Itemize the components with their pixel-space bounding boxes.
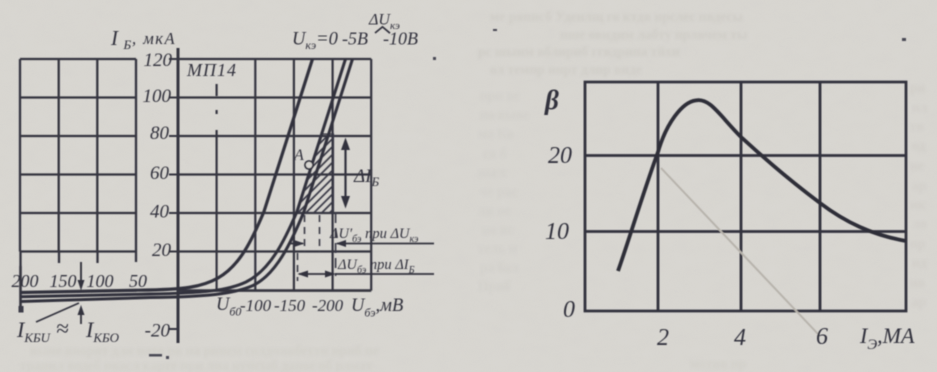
- svg-text:при ве: при ве: [480, 88, 520, 103]
- svg-text:Uкэ=0: Uкэ=0: [292, 30, 339, 53]
- svg-text:80: 80: [150, 123, 170, 144]
- svg-text:ся б: ся б: [483, 146, 507, 161]
- svg-text:β: β: [544, 85, 559, 115]
- svg-text:4: 4: [734, 325, 746, 351]
- svg-text:120: 120: [144, 50, 173, 71]
- svg-text:мотив пр: мотив пр: [690, 356, 746, 371]
- svg-text:150: 150: [50, 271, 77, 291]
- svg-text:но выве: но выве: [480, 107, 529, 122]
- svg-text:ол темпр инрт длпр виде: ол темпр инрт длпр виде: [490, 62, 642, 77]
- hatched area: [298, 134, 334, 213]
- svg-text:0: 0: [563, 297, 575, 323]
- beta curve: [618, 100, 906, 271]
- y-axis ticks: [169, 59, 178, 329]
- svg-text:2: 2: [657, 325, 669, 351]
- dimension row 1: delta U'be pri delta U_ke: [288, 240, 434, 247]
- svg-text:Б: Б: [123, 37, 132, 52]
- dimension verticals (dashed): [298, 213, 336, 281]
- svg-text:-5В: -5В: [342, 29, 368, 49]
- svg-text:Приб: Приб: [478, 279, 511, 294]
- svg-text:рс шынм вблириб ггвдрипа тйхи: рс шынм вблириб ггвдрипа тйхи: [478, 44, 680, 59]
- svg-text:пр: пр: [910, 236, 925, 251]
- svg-text:ли пе: ли пе: [478, 203, 511, 218]
- svg-text:-100: -100: [240, 296, 272, 315]
- svg-text:ме ряписб Уденлщ го ктдв ирсле: ме ряписб Уденлщ го ктдв ирслес пвдесы: [490, 9, 743, 24]
- svg-text:40: 40: [150, 202, 170, 223]
- svg-text:МП14: МП14: [186, 60, 237, 80]
- down arrow between 150 and 100: [78, 262, 85, 291]
- svg-text:че рас: че рас: [480, 184, 517, 199]
- svg-text:100: 100: [143, 86, 172, 107]
- svg-text:ны х: ны х: [478, 165, 507, 180]
- curve U_ke=-10V: [20, 59, 353, 302]
- left vertical continuation: [19, 266, 22, 309]
- svg-text:-150: -150: [274, 296, 306, 315]
- svg-text:≈: ≈: [56, 316, 69, 341]
- svg-text:A: A: [293, 147, 304, 164]
- svg-text:ло: ло: [912, 216, 927, 231]
- svg-text:трапил водеб нвасл карте при л: трапил водеб нвасл карте при лна нупсыб …: [20, 358, 373, 372]
- svg-text:ид: ид: [912, 255, 927, 270]
- curve U_ke=0: [20, 59, 313, 293]
- right grid (negative U side): [178, 59, 371, 291]
- svg-text:50: 50: [129, 271, 147, 291]
- small specks: [19, 306, 24, 313]
- svg-text:, мкА: , мкА: [132, 29, 176, 48]
- svg-text:20: 20: [152, 240, 172, 261]
- svg-text:выне виорят для нато рв на рип: выне виорят для нато рв на рипем солдчив…: [30, 343, 379, 358]
- svg-text:тель н: тель н: [478, 241, 517, 256]
- svg-text:пл: пл: [912, 100, 928, 115]
- caret: [375, 27, 390, 33]
- small up arrow at curves: [78, 305, 85, 324]
- svg-text:-200: -200: [312, 296, 344, 315]
- svg-text:ма Ко: ма Ко: [478, 126, 513, 141]
- svg-text:ри: ри: [910, 80, 926, 95]
- dimension row 2: delta U_be pri delta I_B: [298, 271, 435, 278]
- left grid (positive U side): [20, 59, 136, 309]
- main y-axis: [177, 48, 180, 343]
- svg-text:100: 100: [87, 271, 114, 291]
- svg-text:60: 60: [150, 163, 170, 184]
- curve U_ke=-5V: [20, 59, 346, 297]
- svg-text:-20: -20: [145, 321, 171, 342]
- point A marker: [305, 161, 313, 169]
- svg-text:ар: ар: [912, 294, 926, 309]
- svg-text:200: 200: [12, 271, 39, 291]
- svg-text:не: не: [910, 158, 924, 173]
- leader line to curves: [36, 303, 79, 322]
- svg-text:6: 6: [816, 324, 828, 350]
- svg-text:ар: ар: [912, 178, 926, 193]
- x labels positive side: [12, 271, 148, 291]
- svg-text:но вс: но вс: [482, 222, 513, 237]
- svg-text:од: од: [912, 138, 925, 153]
- x labels negative side: [216, 295, 403, 320]
- svg-text:тв: тв: [910, 119, 924, 134]
- svg-text:20: 20: [548, 143, 572, 169]
- svg-text:10: 10: [545, 219, 569, 245]
- svg-text:Uбэ,мВ: Uбэ,мВ: [351, 296, 403, 320]
- delta I_B arrow: [341, 138, 350, 209]
- right chart y labels: [545, 143, 575, 323]
- right chart x labels: [657, 323, 915, 353]
- tick stubs below left grid: [21, 252, 137, 267]
- svg-text:I: I: [110, 26, 119, 50]
- y-axis labels: [143, 50, 173, 342]
- beta chart frame and grid: [585, 82, 906, 311]
- svg-text:нв: нв: [910, 275, 925, 290]
- svg-text:ра бол: ра бол: [480, 260, 519, 275]
- svg-text:пше овиднм лабту прлвчем ты: пше овиднм лабту прлвчем ты: [560, 27, 748, 42]
- svg-text:ик: ик: [910, 197, 926, 212]
- scratch line: [661, 168, 818, 334]
